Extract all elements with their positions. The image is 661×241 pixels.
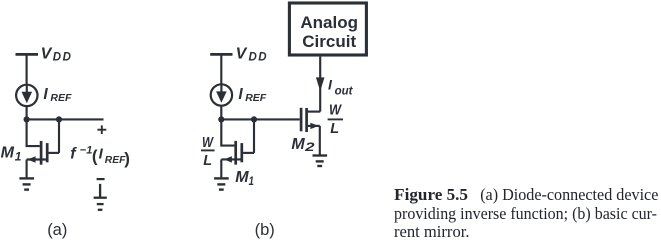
wire M1 gate branch down (b) bbox=[221, 119, 234, 145]
figure caption bbox=[394, 185, 658, 241]
svg-text:Circuit: Circuit bbox=[302, 32, 356, 51]
minus terminal (a) bbox=[97, 178, 105, 180]
junction dot M1 gate branch (b) bbox=[218, 116, 224, 122]
transistor M1 (a) source wire with arrow bbox=[27, 158, 46, 160]
wire M1 drain branch down (b) bbox=[253, 119, 255, 152]
svg-text:): ) bbox=[124, 149, 130, 168]
svg-text:(a): (a) bbox=[47, 221, 67, 239]
label M1 (b) bbox=[235, 169, 254, 188]
svg-text:I: I bbox=[43, 86, 48, 103]
svg-text:REF: REF bbox=[245, 92, 267, 104]
label f^-1(IREF) (a) bbox=[70, 145, 130, 168]
current source IREF (b) bbox=[211, 84, 232, 105]
wire current source to mirror node (b) bbox=[220, 106, 222, 120]
plus terminal (a) bbox=[97, 125, 106, 134]
IREF value label (b) bbox=[238, 86, 266, 104]
svg-text:V: V bbox=[236, 45, 248, 62]
svg-text:(a) Diode-connected device: (a) Diode-connected device bbox=[480, 185, 658, 204]
wire current source to node X (a) bbox=[26, 106, 28, 119]
svg-text:REF: REF bbox=[50, 92, 72, 104]
junction dot drain branch (a) bbox=[56, 116, 62, 122]
svg-text:(: ( bbox=[92, 146, 98, 165]
svg-text:L: L bbox=[330, 121, 339, 137]
wire M1 source down to ground (b) bbox=[220, 159, 222, 177]
wire VDD stem (b) bbox=[220, 54, 222, 85]
label M2 (b) bbox=[291, 136, 315, 154]
transistor M2 (b) channel bar bbox=[305, 108, 308, 132]
svg-text:1: 1 bbox=[249, 174, 255, 188]
IREF value label (a) bbox=[43, 86, 72, 104]
wire M2 source down to ground (b) bbox=[319, 126, 321, 155]
transistor M2 (b) source wire with arrow bbox=[308, 125, 320, 127]
label M1 (a) bbox=[1, 145, 22, 164]
current source IREF (a) bbox=[16, 85, 37, 106]
transistor M1 (a) channel bar bbox=[46, 143, 49, 162]
transistor M2 (b) drain stub bbox=[308, 111, 320, 113]
transistor M1 (b) gate bar bbox=[234, 141, 237, 165]
svg-text:out: out bbox=[335, 86, 354, 98]
svg-text:Figure 5.5: Figure 5.5 bbox=[394, 185, 468, 204]
output reference ground (a) bbox=[94, 184, 107, 210]
junction dot M1 drain branch (b) bbox=[251, 116, 257, 122]
svg-text:W: W bbox=[329, 102, 342, 118]
svg-text:REF: REF bbox=[105, 155, 126, 166]
svg-text:I: I bbox=[99, 146, 104, 163]
wire VDD stem (a) bbox=[26, 54, 28, 85]
VDD supply bar (b) bbox=[210, 53, 232, 56]
node VDD label (b) bbox=[236, 45, 269, 63]
svg-text:f: f bbox=[70, 146, 77, 163]
wire Iout from box to M2 drain (b) bbox=[319, 57, 321, 112]
transistor M1 (b) drain stub bbox=[243, 152, 254, 154]
transistor M1 (b) channel bar bbox=[240, 143, 243, 162]
svg-text:L: L bbox=[203, 153, 212, 169]
svg-text:2: 2 bbox=[304, 140, 315, 154]
svg-text:Analog: Analog bbox=[300, 13, 358, 32]
svg-text:DD: DD bbox=[53, 51, 73, 63]
Iout current arrow (b) bbox=[316, 77, 325, 91]
W/L ratio label of M2 (b) bbox=[329, 102, 342, 137]
Analog Circuit box (b) bbox=[289, 3, 366, 55]
svg-text:−1: −1 bbox=[80, 145, 93, 157]
svg-text:DD: DD bbox=[249, 51, 269, 63]
svg-text:M: M bbox=[291, 136, 305, 153]
svg-text:(b): (b) bbox=[255, 221, 275, 239]
svg-text:1: 1 bbox=[15, 149, 22, 163]
svg-text:M: M bbox=[1, 145, 15, 162]
ground under M1 (a) bbox=[19, 178, 34, 189]
node VDD label (a) bbox=[41, 45, 73, 63]
svg-text:I: I bbox=[238, 86, 243, 103]
svg-text:I: I bbox=[328, 77, 333, 93]
svg-text:V: V bbox=[41, 45, 53, 62]
wire node X horizontal (a) bbox=[27, 118, 104, 120]
ground under M1 (b) bbox=[214, 178, 229, 189]
wire gate branch down (a) bbox=[27, 119, 40, 146]
ground under M2 (b) bbox=[313, 156, 328, 167]
junction dot gate branch (a) bbox=[24, 116, 30, 122]
svg-text:M: M bbox=[235, 169, 249, 186]
transistor M1 (a) drain stub bbox=[49, 152, 60, 154]
wire mirror node horizontal to M2 gate (b) bbox=[221, 118, 299, 120]
wire source down to ground (a) bbox=[26, 160, 28, 178]
W/L ratio label of M1 (b) bbox=[202, 135, 214, 169]
svg-text:rent mirror.: rent mirror. bbox=[394, 222, 470, 241]
svg-text:providing inverse function; (b: providing inverse function; (b) basic cu… bbox=[394, 204, 657, 223]
transistor M1 (b) source wire with arrow bbox=[221, 158, 240, 160]
VDD supply bar (a) bbox=[16, 53, 39, 56]
transistor M2 (b) gate bar bbox=[300, 108, 303, 132]
transistor M1 (a) gate bar bbox=[40, 141, 43, 165]
wire drain branch down (a) bbox=[58, 119, 60, 152]
svg-text:W: W bbox=[202, 135, 214, 151]
Iout label (b) bbox=[328, 77, 354, 98]
